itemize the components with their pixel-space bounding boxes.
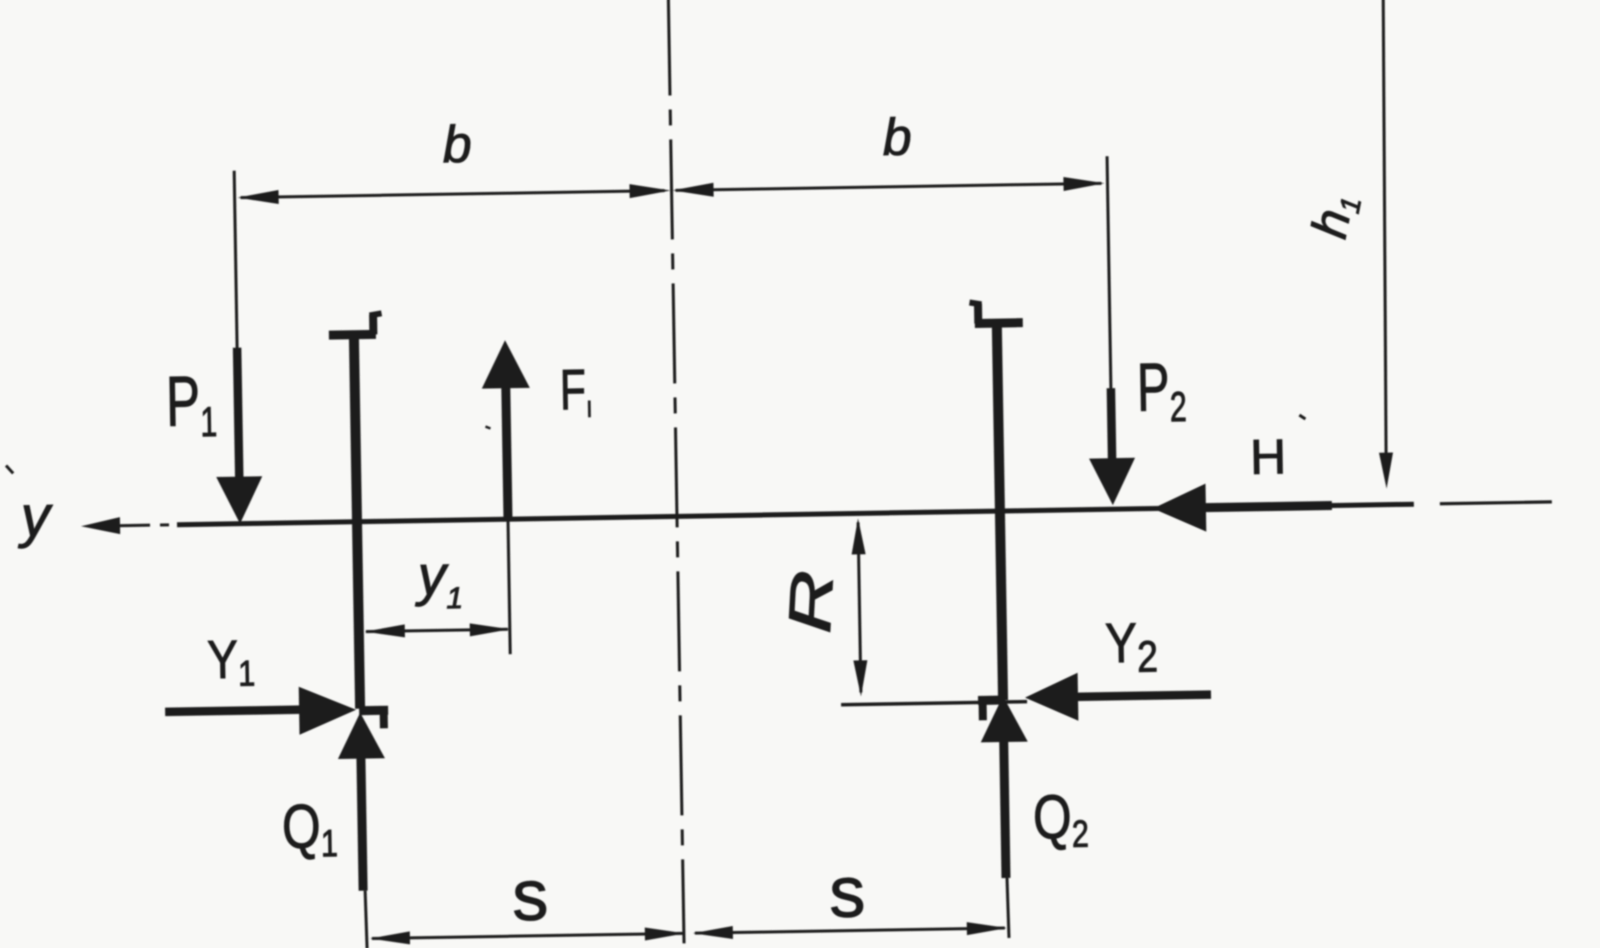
- force P2: extension line: [1107, 156, 1111, 393]
- force Q1: arrowhead: [337, 712, 385, 759]
- svg-text:y: y: [16, 484, 53, 550]
- force P1: shaft: [237, 348, 239, 480]
- label Fi: [559, 357, 592, 424]
- dimension h1: down arrowhead: [1379, 453, 1394, 489]
- dimension s left: right arrowhead: [645, 927, 685, 941]
- dimension s left: left arrowhead: [370, 931, 410, 945]
- label Y2: [1105, 612, 1159, 682]
- force P1: extension line: [234, 171, 237, 353]
- dimension s left: extension line below Q1: [365, 891, 367, 948]
- dimension R: bottom reference line (rail contact plane): [841, 702, 1027, 705]
- dimension b left: left arrowhead: [238, 190, 279, 205]
- label Y1: [207, 629, 256, 695]
- wire: right wheel bottom contact bar: [978, 696, 1004, 705]
- force P2: arrowhead: [1089, 458, 1136, 506]
- dimension b right: line: [676, 183, 1102, 190]
- wire: right wheel top bar: [975, 318, 1023, 328]
- speck near left edge: [6, 465, 13, 473]
- label Q1: [281, 791, 338, 866]
- force H: shaft: [1205, 506, 1332, 508]
- dimension b left: line: [241, 191, 665, 198]
- wire: left wheel top bar: [329, 330, 376, 340]
- force Q1: shaft: [361, 756, 363, 891]
- dimension y1: left arrowhead: [365, 624, 405, 638]
- svg-text:b: b: [442, 116, 472, 174]
- svg-text:s: s: [512, 856, 549, 937]
- force P1: arrowhead: [216, 476, 263, 524]
- svg-text:H: H: [1250, 430, 1287, 485]
- force Y2: arrowhead: [1025, 673, 1079, 722]
- wire: right wheel plane vertical: [997, 323, 1003, 700]
- force Q2: arrowhead: [980, 696, 1028, 743]
- dimension s right: line: [695, 928, 1005, 933]
- dimension s right: extension line below Q2: [1007, 878, 1009, 938]
- wire: y-axis centre-line dot: [160, 523, 169, 526]
- dimension R: vertical double arrow line: [858, 522, 861, 692]
- label Q2: [1032, 781, 1089, 856]
- wire: right wheel bottom flange stub: [979, 699, 987, 720]
- svg-text:b: b: [882, 108, 912, 166]
- dimension s left: line: [372, 933, 683, 938]
- wire: left wheel plane vertical: [354, 335, 360, 709]
- wire: left wheel bottom contact bar: [359, 706, 388, 715]
- svg-text:s: s: [829, 852, 866, 933]
- svg-text:Q2: Q2: [1032, 781, 1089, 856]
- force Fi: shaft: [506, 387, 508, 519]
- svg-text:Y2: Y2: [1105, 612, 1159, 682]
- dimension s right: left arrowhead: [693, 926, 733, 940]
- force Y2: shaft: [1075, 695, 1211, 697]
- dimension R: bottom arrowhead: [853, 660, 868, 696]
- force Fi: arrowhead: [481, 340, 530, 389]
- dimension s right: right arrowhead: [967, 921, 1007, 935]
- label R (rotated): [775, 569, 846, 635]
- force P2: shaft: [1111, 388, 1112, 461]
- svg-text:h1: h1: [1301, 189, 1367, 243]
- label P2: [1136, 348, 1187, 431]
- svg-text:y1: y1: [413, 543, 463, 616]
- svg-text:R: R: [775, 569, 846, 635]
- force Q2: shaft: [1004, 740, 1006, 878]
- dimension y1: extension line below axle: [508, 521, 510, 654]
- wire: y-axis short dash after arrowhead: [117, 524, 150, 528]
- dimension b right: right arrowhead: [1063, 176, 1104, 191]
- svg-text:Q1: Q1: [281, 791, 338, 866]
- force H: arrowhead: [1152, 484, 1206, 533]
- force Y1: shaft: [165, 710, 301, 712]
- wire: main horizontal axle line: [177, 504, 1414, 525]
- wire: left wheel bottom flange stub: [380, 709, 388, 728]
- dimension y1: right arrowhead: [470, 623, 510, 637]
- svg-text:P1: P1: [165, 362, 217, 446]
- label H: [1250, 430, 1287, 485]
- wire: y-axis arrowhead (left end of wheelset axle centre line): [81, 517, 120, 535]
- svg-text:Fı: Fı: [559, 357, 592, 424]
- wire: axle centre line right dash segment: [1440, 502, 1552, 504]
- label h1 (rotated): [1301, 189, 1367, 243]
- label P1: [165, 362, 217, 446]
- svg-text:P2: P2: [1136, 348, 1187, 431]
- dimension h1: vertical line at far right: [1378, 0, 1391, 459]
- wire: left wheel top flange hook: [369, 314, 377, 334]
- wire: right wheel top flange hook: [974, 303, 982, 323]
- dimension y1: line: [366, 629, 508, 631]
- speck near H label: [1299, 415, 1305, 419]
- force Y1: arrowhead: [299, 686, 357, 735]
- dimension R: top arrowhead: [851, 518, 866, 554]
- dimension b right: left arrowhead: [672, 183, 713, 198]
- speck near Fi arrow: [485, 426, 490, 428]
- svg-text:Y1: Y1: [207, 629, 256, 695]
- dimension b left: right arrowhead: [629, 183, 670, 198]
- node: vertical centre line of track (dash-dot): [668, 0, 684, 943]
